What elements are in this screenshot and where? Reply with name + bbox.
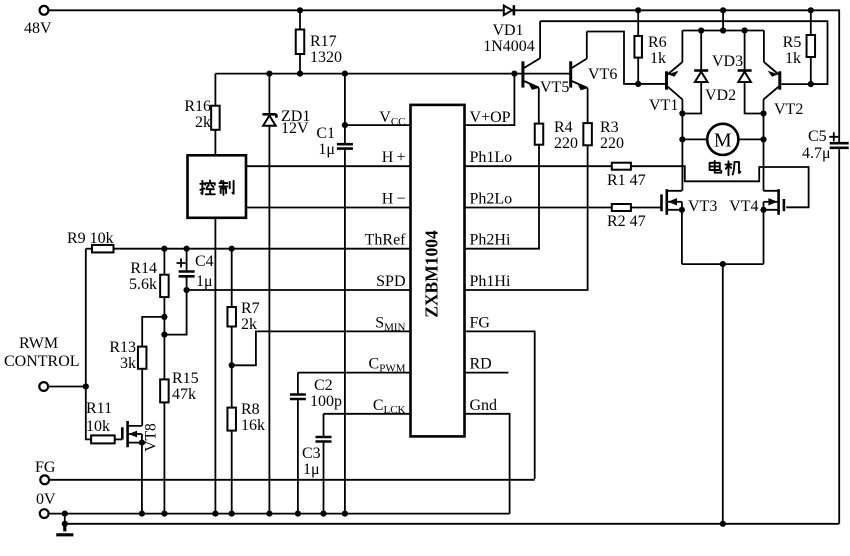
wire VT2 base: [781, 83, 827, 85]
resistor R13: [138, 347, 147, 369]
resistor R9: [92, 245, 114, 253]
wire VD2 top lead: [700, 31, 702, 71]
resistor R11: [91, 435, 115, 443]
transistor VT3: [662, 189, 682, 215]
svg-text:V+OP: V+OP: [470, 109, 511, 126]
svg-text:C1: C1: [316, 125, 335, 142]
junction 0V 0V ground stub: [62, 510, 68, 516]
junction Vz ZD1: [266, 71, 272, 77]
junction bridge bottom: [720, 261, 726, 267]
resistor R16: [211, 106, 220, 130]
svg-text:VT8: VT8: [143, 423, 160, 452]
transistor VT5: [523, 21, 540, 123]
wire H+: [246, 165, 411, 167]
junction VT4 source: [760, 207, 766, 213]
capacitor C2: [290, 395, 306, 400]
junction emitter rail drop: [720, 27, 726, 33]
svg-text:M: M: [714, 130, 732, 152]
terminal 48V: [40, 6, 49, 15]
wire VT6 collector loop: [587, 32, 665, 84]
wire FG rail: [49, 479, 535, 481]
svg-text:VD3: VD3: [712, 53, 743, 70]
wire bridge bottom: [682, 263, 764, 265]
wire left rail: [681, 114, 683, 191]
junction R14 C4 branch: [161, 332, 167, 338]
wire R5 top lead: [810, 10, 812, 35]
wire Ph2Lo: [465, 207, 612, 209]
svg-text:R3: R3: [600, 119, 619, 136]
svg-text:R9 10k: R9 10k: [67, 230, 114, 247]
wire C4 top lead: [186, 249, 188, 272]
wire ZD1 bottom lead: [268, 126, 270, 514]
wire C3 top lead: [323, 414, 325, 437]
wire VT5 collector rail: [540, 21, 827, 84]
svg-text:2k: 2k: [195, 114, 211, 131]
wire SMIN jog: [232, 331, 411, 365]
wire Gnd pin: [465, 414, 510, 514]
junction motor right: [760, 136, 766, 142]
resistor R7: [227, 307, 236, 327]
svg-text:VT6: VT6: [588, 66, 617, 83]
wire R16 top lead: [214, 74, 216, 106]
junction VT3 source: [679, 207, 685, 213]
wire H-: [246, 207, 411, 209]
wire left column: [86, 249, 91, 440]
wire R1 to VT4 gate: [631, 166, 809, 207]
wire R6 top lead: [637, 10, 639, 36]
diode VD1: [504, 5, 514, 15]
wire VT3 source down: [681, 210, 683, 264]
wire right rail: [763, 114, 765, 191]
wire VT4 source down: [763, 210, 765, 264]
wire VT8 source down: [141, 443, 143, 514]
wire Ph1Lo: [465, 165, 612, 167]
IC U1 ZXBM1004 body: [411, 105, 465, 437]
junction R5 VT2 base: [808, 81, 814, 87]
junction 0V C1: [342, 510, 348, 516]
motor M1: [707, 124, 738, 155]
svg-text:R1 47: R1 47: [607, 172, 646, 189]
svg-text:RWM: RWM: [19, 335, 58, 352]
wire motor right: [738, 138, 763, 140]
junction ground rail left: [62, 521, 68, 527]
wire emitter rail: [682, 30, 764, 32]
transistor VT4: [764, 189, 784, 215]
wire R11 to gate: [115, 438, 123, 440]
svg-text:H +: H +: [382, 149, 406, 166]
junction R14 R13: [161, 314, 167, 320]
wire CLCK: [324, 413, 411, 415]
wire R15 bottom lead: [163, 402, 165, 513]
label C4 plus: [177, 259, 186, 268]
wire RD stub: [465, 372, 509, 374]
resistor R14: [160, 275, 169, 297]
svg-text:R11: R11: [86, 400, 112, 417]
wire VD3 bottom lead: [745, 82, 764, 114]
junction top rail R6: [635, 7, 641, 13]
wire R8 bottom lead: [231, 431, 233, 514]
svg-text:R17: R17: [310, 33, 337, 50]
wire RWM: [48, 386, 86, 388]
svg-text:VT3: VT3: [688, 198, 717, 215]
svg-text:VD2: VD2: [705, 87, 736, 104]
terminal 0V: [40, 509, 49, 518]
wire VCC: [345, 124, 411, 126]
svg-text:C4: C4: [195, 253, 214, 270]
svg-text:C3: C3: [302, 445, 321, 462]
resistor R1: [612, 163, 631, 170]
junction top rail R17: [297, 7, 303, 13]
diode VD2: [694, 71, 708, 83]
svg-text:220: 220: [600, 135, 624, 152]
ground symbol: [56, 524, 73, 535]
svg-text:100p: 100p: [310, 393, 342, 410]
wire R13 bottom lead: [141, 369, 143, 426]
svg-text:12V: 12V: [281, 120, 309, 137]
capacitor C5: [830, 143, 849, 148]
junction 0V C3: [320, 510, 326, 516]
svg-text:4.7μ: 4.7μ: [802, 145, 831, 162]
junction right rail top: [760, 110, 766, 116]
wire R2 to VT3 gate: [631, 207, 662, 209]
wire ground rail: [65, 514, 839, 524]
wire SPD jog down: [164, 290, 186, 335]
junction R7 R8 SMIN: [229, 362, 235, 368]
wire C1 top lead: [344, 74, 346, 145]
junction top rail R5: [808, 7, 814, 13]
junction VCC C1: [342, 122, 348, 128]
transistor VT2: [764, 31, 780, 114]
wire R13 top lead: [142, 317, 164, 347]
svg-text:VT4: VT4: [729, 198, 758, 215]
junction left rail top: [679, 110, 685, 116]
svg-text:1k: 1k: [785, 50, 801, 67]
svg-text:VT5: VT5: [540, 79, 569, 96]
svg-text:3k: 3k: [120, 355, 136, 372]
junction 0V R15: [161, 510, 167, 516]
wire VD2 bottom lead: [682, 82, 701, 114]
transistor VT8: [122, 421, 142, 447]
resistor R15: [160, 379, 169, 402]
junction 0V C2: [295, 510, 301, 516]
wire Vz node: [215, 73, 570, 75]
wire R5 bottom lead: [810, 57, 812, 84]
wire ZD1 top lead: [268, 74, 270, 115]
svg-text:C5: C5: [808, 128, 827, 145]
svg-text:1k: 1k: [650, 50, 666, 67]
svg-text:2k: 2k: [241, 316, 257, 333]
capacitor C3: [316, 437, 332, 442]
svg-text:Ph2Hi: Ph2Hi: [470, 232, 511, 249]
wire 0V rail: [48, 513, 509, 515]
transistor VT1: [667, 31, 683, 114]
junction 0V ZD1: [266, 510, 272, 516]
label 控制: [200, 181, 233, 195]
svg-text:5.6k: 5.6k: [129, 276, 157, 293]
wire R7 top lead: [231, 249, 233, 307]
wire R7-R8 link: [231, 327, 233, 408]
wire motor left: [682, 138, 707, 140]
transistor VT6: [571, 32, 588, 124]
svg-text:10k: 10k: [86, 418, 110, 435]
wire VT1 base: [624, 83, 665, 85]
junction ThRef R14: [161, 246, 167, 252]
svg-text:FG: FG: [35, 459, 56, 476]
junction Vz V+OP: [511, 71, 517, 77]
zener ZD1: [262, 114, 276, 126]
svg-text:R15: R15: [172, 370, 199, 387]
svg-text:1μ: 1μ: [303, 461, 320, 478]
svg-text:R16: R16: [184, 98, 211, 115]
svg-text:Ph1Lo: Ph1Lo: [470, 149, 513, 166]
wire R6 bottom lead: [637, 58, 639, 84]
svg-text:1320: 1320: [310, 49, 342, 66]
svg-text:CONTROL: CONTROL: [4, 353, 80, 370]
wire C3 bottom lead: [323, 442, 325, 514]
svg-text:H −: H −: [382, 190, 406, 207]
svg-text:R7: R7: [241, 300, 260, 317]
svg-text:R8: R8: [241, 401, 260, 418]
svg-text:1μ: 1μ: [318, 141, 335, 158]
wire rail drop: [722, 10, 724, 30]
svg-text:0V: 0V: [36, 491, 56, 508]
wire C2 bottom lead: [297, 399, 299, 514]
junction SPD C4: [184, 287, 190, 293]
junction Vz C1: [342, 71, 348, 77]
junction VT8 source: [139, 440, 145, 446]
svg-text:C2: C2: [314, 377, 333, 394]
terminal FG: [40, 475, 49, 484]
control box 控制: [188, 155, 247, 218]
wire R14 top lead: [163, 249, 165, 275]
wire FG pin: [465, 331, 535, 479]
wire SPD: [187, 289, 411, 291]
wire C2 top lead: [297, 373, 299, 395]
svg-text:VD1: VD1: [492, 22, 523, 39]
wire C1 bottom lead: [344, 149, 346, 514]
junction 0V VT8: [139, 510, 145, 516]
svg-text:R13: R13: [109, 339, 136, 356]
wire Ph2Hi: [465, 145, 540, 249]
junction 0V R8: [229, 510, 235, 516]
svg-text:48V: 48V: [24, 20, 52, 37]
wire C4 bottom lead: [186, 276, 188, 290]
junction 0V control: [212, 510, 218, 516]
svg-text:SPD: SPD: [376, 273, 405, 290]
wire V+OP: [465, 74, 515, 126]
svg-text:47k: 47k: [172, 386, 196, 403]
wire bridge to ground rail: [722, 264, 724, 524]
svg-text:RD: RD: [470, 356, 492, 373]
junction R6 VT1 base: [635, 81, 641, 87]
wire R14 bottom lead: [163, 297, 165, 402]
wire CPWM: [298, 372, 411, 374]
resistor R3: [583, 123, 592, 145]
svg-text:ZXBM1004: ZXBM1004: [422, 230, 442, 318]
svg-text:1μ: 1μ: [196, 273, 213, 290]
junction motor left: [679, 136, 685, 142]
terminal RWM CONTROL: [39, 382, 48, 391]
resistor R6: [634, 36, 642, 58]
svg-text:R4: R4: [554, 119, 573, 136]
svg-text:R5: R5: [783, 34, 802, 51]
diode VD3: [738, 71, 752, 83]
capacitor C4: [179, 272, 195, 277]
svg-text:R14: R14: [130, 260, 157, 277]
resistor R5: [807, 35, 816, 57]
svg-text:ThRef: ThRef: [365, 232, 407, 249]
svg-text:220: 220: [554, 135, 578, 152]
junction Vz R17: [297, 71, 303, 77]
svg-text:VT2: VT2: [774, 101, 803, 118]
wire R16 bottom lead: [214, 130, 216, 156]
capacitor C1: [337, 144, 353, 148]
wire C5 bottom lead: [838, 148, 840, 524]
svg-text:Gnd: Gnd: [470, 397, 498, 414]
svg-text:R6: R6: [648, 34, 667, 51]
junction ground rail bridge: [720, 521, 726, 527]
svg-text:Ph2Lo: Ph2Lo: [470, 190, 513, 207]
wire VD3 top lead: [744, 31, 746, 71]
junction ThRef C4: [184, 246, 190, 252]
wire ThRef left: [86, 248, 92, 250]
resistor R8: [227, 408, 236, 431]
svg-text:1N4004: 1N4004: [483, 38, 535, 55]
junction emitter rail VD2: [698, 27, 704, 33]
svg-text:16k: 16k: [241, 417, 265, 434]
svg-text:Ph1Hi: Ph1Hi: [470, 273, 511, 290]
resistor R2: [612, 204, 631, 211]
junction ThRef R7: [229, 246, 235, 252]
wire 48V top rail: [48, 10, 839, 143]
svg-text:FG: FG: [470, 314, 491, 331]
junction RWM: [83, 383, 89, 389]
wire ThRef: [114, 248, 411, 250]
svg-text:R2 47: R2 47: [607, 213, 646, 230]
wire control box ground lead: [214, 218, 216, 514]
label C5 plus: [829, 132, 838, 141]
wire R17 leads: [299, 10, 301, 73]
wire Ph1Hi: [465, 145, 588, 290]
resistor R17: [296, 30, 305, 55]
resistor R4: [535, 124, 544, 145]
svg-text:VT1: VT1: [649, 97, 678, 114]
label 电机: [710, 161, 741, 175]
junction emitter rail VD3: [742, 27, 748, 33]
junction top rail drop: [720, 7, 726, 13]
